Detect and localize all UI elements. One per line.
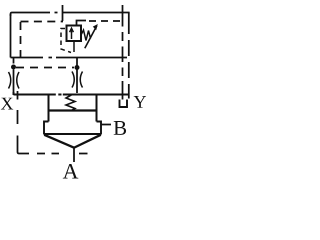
main pilot line vertical x=77 with orifice bbox=[76, 58, 78, 94]
dashed drain line y=21 to right bbox=[89, 20, 122, 22]
junction node on main pilot line bbox=[75, 65, 80, 70]
label Y bbox=[134, 96, 146, 108]
junction node on X line bbox=[11, 65, 16, 70]
main valve sleeve left edge bbox=[48, 95, 50, 122]
poppet left shoulder step bbox=[44, 122, 49, 135]
main valve spring bbox=[66, 95, 75, 111]
flow arrow inside pilot valve bbox=[70, 28, 74, 39]
dashed pilot line x=20.5 vertical bbox=[20, 22, 22, 57]
Y drain symbol bbox=[120, 100, 128, 108]
X pilot line vertical with orifice (x=13.5) bbox=[13, 58, 15, 95]
main horizontal line y=94.5 (X to Y across spring chamber) bbox=[14, 94, 130, 96]
poppet cone left side bbox=[44, 135, 74, 148]
pilot section bottom line y=57.5 (chain) bbox=[11, 57, 128, 59]
main valve sleeve right edge bbox=[96, 95, 98, 122]
poppet right shoulder step bbox=[97, 122, 102, 135]
enclosure left edge bbox=[10, 14, 12, 58]
label X bbox=[1, 98, 13, 110]
enclosure left-bottom dashed edge x=17.5 bbox=[18, 91, 21, 154]
label B bbox=[114, 121, 126, 135]
orifice on main pilot line bbox=[72, 72, 83, 88]
main valve sleeve bottom bbox=[49, 109, 97, 111]
poppet seat line bbox=[44, 133, 101, 135]
enclosure right edge (chain, x=129.5) bbox=[128, 13, 130, 99]
drain/Y line vertical x=122.5 crossing top edge bbox=[122, 5, 124, 100]
dashed branch y=67.5 connecting to main pilot line bbox=[16, 67, 74, 69]
port A line bbox=[73, 147, 75, 163]
adjustment arrow (slash) bbox=[85, 26, 97, 48]
dashed pilot line y=21.5 (left branch) bbox=[21, 21, 64, 23]
pilot valve inlet stub bbox=[73, 41, 75, 52]
pilot valve adjustable spring bbox=[81, 30, 91, 41]
pilot relief valve U1 body bbox=[67, 26, 82, 42]
poppet cone right side bbox=[74, 135, 101, 148]
port stub crossing top edge at x=62.5 bbox=[62, 5, 64, 21]
orifice on X line bbox=[9, 72, 20, 89]
dashed pilot connection at left of pilot valve bbox=[61, 29, 71, 53]
enclosure bottom dashed edge y=153.5 bbox=[20, 153, 88, 155]
label A bbox=[63, 164, 79, 179]
enclosure top edge (chain line) bbox=[11, 13, 130, 17]
port B stub bbox=[101, 124, 111, 126]
small chain-line gaps in main horizontal bbox=[56, 92, 63, 97]
pilot valve outlet line to drain bbox=[77, 21, 87, 26]
